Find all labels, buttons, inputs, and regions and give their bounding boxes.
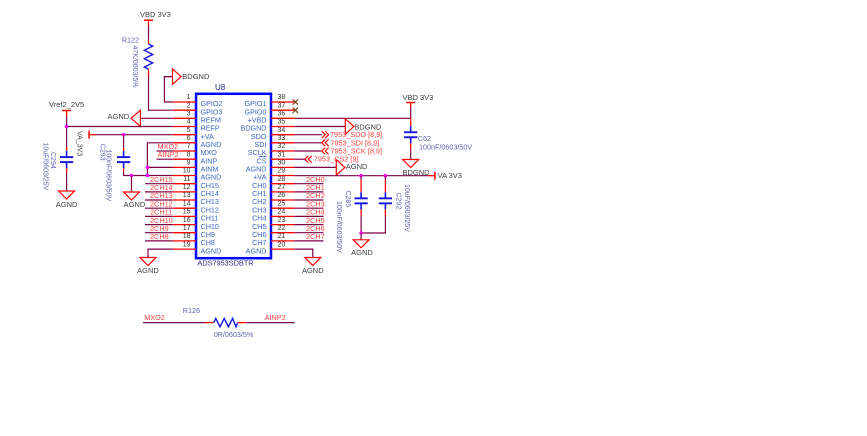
- svg-text:37: 37: [278, 102, 286, 109]
- svg-text:VA_3V3: VA_3V3: [75, 131, 82, 156]
- wire net 2CH10 (pin 16): [145, 224, 173, 226]
- wire BDGND to U8 pin 1 GPIO2: [164, 77, 172, 102]
- wire C292 bottom to ground junction: [361, 216, 385, 234]
- svg-text:5: 5: [187, 127, 191, 134]
- power VBD_3V3 (right): [406, 103, 415, 108]
- wire net 2CH14 (pin 12): [145, 191, 173, 193]
- capacitor C62: [404, 126, 417, 150]
- wire net AINP2 (pin 8): [157, 158, 173, 160]
- ground AGND (REFM): [131, 110, 140, 126]
- svg-text:AGND: AGND: [201, 246, 222, 255]
- svg-text:34: 34: [278, 127, 286, 134]
- svg-text:22: 22: [278, 225, 286, 232]
- ground AGND (C294): [59, 191, 75, 199]
- ground BDGND (GPIO2): [173, 69, 182, 84]
- svg-text:35: 35: [278, 119, 286, 126]
- wire Vref2 vertical: [66, 117, 68, 148]
- wire net 2CH11 (pin 15): [145, 215, 173, 217]
- wire net 2CH7 (pin 21): [295, 240, 324, 242]
- svg-text:18: 18: [183, 233, 191, 240]
- junction VA/C293: [122, 133, 126, 137]
- svg-text:23: 23: [278, 217, 286, 224]
- wire U8 pin 30 AGND: [295, 166, 337, 168]
- svg-text:2: 2: [187, 102, 191, 109]
- U8 left pin stubs 1-19: [173, 102, 196, 249]
- svg-text:AGND: AGND: [124, 200, 146, 209]
- svg-text:C285: C285: [344, 191, 351, 208]
- U8 right pin stubs 20-38: [271, 102, 295, 249]
- svg-text:1: 1: [187, 94, 191, 101]
- capacitor C293: [117, 148, 130, 172]
- wire net 2CH15 (pin 11): [145, 183, 173, 185]
- svg-text:33: 33: [278, 135, 286, 142]
- wire net 7953_SDO (pin 34): [295, 134, 322, 136]
- svg-text:28: 28: [278, 176, 286, 183]
- svg-text:36: 36: [278, 111, 286, 118]
- wire net 7953_CS2 (pin 31): [295, 158, 305, 160]
- wire +VA rail (pin 29): [295, 175, 428, 177]
- power VA_3V3 tap (right): [428, 172, 435, 180]
- junction pin9/ground: [146, 166, 150, 170]
- svg-text:29: 29: [278, 168, 286, 175]
- off-page connector 7953_SDO: [322, 131, 329, 138]
- svg-text:AGND: AGND: [137, 266, 159, 275]
- resistor R126: [205, 318, 246, 326]
- wire rail down to C292: [384, 176, 386, 193]
- svg-text:AINP2: AINP2: [158, 150, 179, 159]
- svg-text:6: 6: [187, 135, 191, 142]
- svg-text:24: 24: [278, 209, 286, 216]
- op-amp/IC U8 body ADS7953SDBTR: [196, 94, 271, 258]
- off-page connector 7953_SDI: [322, 139, 329, 146]
- wire C294 to AGND: [66, 173, 68, 192]
- ground AGND (C285/C292): [353, 240, 369, 248]
- svg-text:10: 10: [183, 168, 191, 175]
- wire AGND to U8 pin 3 REFM: [140, 117, 172, 119]
- power VBD_3V3 (top): [144, 20, 153, 26]
- svg-text:47K/0603/5%: 47K/0603/5%: [131, 46, 138, 88]
- svg-text:C293: C293: [98, 144, 105, 161]
- svg-text:BDGND: BDGND: [182, 72, 210, 81]
- wire net 2CH2 (pin 26): [295, 199, 324, 201]
- svg-text:26: 26: [278, 192, 286, 199]
- ground AGND (C293): [124, 192, 140, 200]
- junction C285/C292 ground: [359, 231, 363, 235]
- wire net MXO2 (R126 left): [143, 322, 205, 324]
- svg-text:ADS7953SDBTR: ADS7953SDBTR: [198, 259, 254, 268]
- capacitor C294: [60, 147, 73, 173]
- svg-text:AGND: AGND: [302, 266, 324, 275]
- svg-text:AINP2: AINP2: [265, 313, 286, 322]
- svg-text:20: 20: [278, 241, 286, 248]
- svg-text:16: 16: [183, 217, 191, 224]
- junction pin10/ground: [146, 174, 150, 178]
- U8 right pin numbers 20-38: [278, 94, 286, 248]
- svg-text:C294: C294: [49, 152, 56, 169]
- svg-text:31: 31: [278, 151, 286, 158]
- ground BDGND (pin 35): [345, 119, 354, 134]
- wire U8 pin 20 AGND: [295, 249, 313, 257]
- wire net 7953_SCK (pin 32): [295, 150, 322, 152]
- wire net MXO2 (pin 7): [157, 150, 173, 152]
- capacitor C292: [379, 192, 392, 215]
- svg-text:12: 12: [183, 184, 191, 191]
- wire +VBD rail (pin 36): [295, 107, 411, 118]
- svg-text:2CH8: 2CH8: [150, 232, 169, 241]
- svg-text:2CH7: 2CH7: [306, 232, 325, 241]
- wire net 2CH4 (pin 24): [295, 215, 324, 217]
- svg-text:9: 9: [187, 160, 191, 167]
- wire net 2CH1 (pin 27): [295, 191, 324, 193]
- U8 left pin names: [201, 99, 223, 255]
- off-page connector 7953_CS2: [305, 156, 312, 163]
- wire VA_3V3 to U8 pin 5 +VA: [96, 134, 173, 136]
- svg-text:10uF/0603/25V: 10uF/0603/25V: [403, 184, 410, 232]
- svg-text:VA 3V3: VA 3V3: [438, 171, 462, 180]
- svg-text:AGND: AGND: [108, 112, 130, 121]
- wire VA junction down to C293: [123, 135, 125, 148]
- svg-text:U8: U8: [215, 83, 226, 92]
- off-page connector 7953_SCK: [322, 148, 329, 155]
- svg-text:VBD 3V3: VBD 3V3: [403, 93, 434, 102]
- svg-text:21: 21: [278, 233, 286, 240]
- power VA_3V3 tap (left): [89, 131, 96, 139]
- svg-text:AGND: AGND: [56, 200, 78, 209]
- svg-text:27: 27: [278, 184, 286, 191]
- no-connect X pin 37 GPIO0: [293, 108, 298, 113]
- svg-text:10uF/0603/25V: 10uF/0603/25V: [42, 143, 49, 191]
- svg-text:Vref2_2V5: Vref2_2V5: [49, 100, 84, 109]
- ground AGND (pin 20): [305, 258, 321, 266]
- svg-text:30: 30: [278, 160, 286, 167]
- svg-text:R126: R126: [183, 306, 200, 315]
- svg-text:4: 4: [187, 119, 191, 126]
- svg-text:100nF/0603/50V: 100nF/0603/50V: [419, 143, 472, 152]
- U8 left pin numbers 1-19: [183, 94, 191, 248]
- svg-text:C292: C292: [395, 193, 402, 210]
- U8 right pin names: [241, 99, 267, 255]
- wire net AINP2 (R126 right): [246, 322, 295, 324]
- wire C62 to BDGND: [410, 150, 412, 160]
- wire U8 pin 10 AGND: [147, 175, 172, 177]
- junction Vref2/REFP: [65, 125, 69, 129]
- svg-text:AGND: AGND: [246, 246, 267, 255]
- wire net 2CH6 (pin 22): [295, 232, 324, 234]
- wire Vref2 to U8 pin 4 REFP: [67, 126, 173, 128]
- wire VBD to R122: [148, 27, 150, 40]
- ground AGND (pin 19): [140, 258, 156, 266]
- wire VBD rail down to C62: [410, 118, 412, 126]
- wire net 7953_SDI (pin 33): [295, 142, 322, 144]
- svg-text:38: 38: [278, 94, 286, 101]
- svg-text:VBD 3V3: VBD 3V3: [140, 10, 171, 19]
- svg-text:13: 13: [183, 192, 191, 199]
- svg-text:100nF/0603/50V: 100nF/0603/50V: [335, 201, 342, 253]
- wire U8 pin 35 BDGND: [295, 126, 346, 128]
- wire net 2CH13 (pin 13): [145, 199, 173, 201]
- svg-text:15: 15: [183, 209, 191, 216]
- svg-text:8: 8: [187, 151, 191, 158]
- resistor R122: [144, 40, 152, 75]
- svg-text:17: 17: [183, 225, 191, 232]
- svg-text:3: 3: [187, 111, 191, 118]
- svg-text:25: 25: [278, 200, 286, 207]
- svg-text:7: 7: [187, 143, 191, 150]
- svg-text:14: 14: [183, 200, 191, 207]
- svg-text:AGND: AGND: [346, 162, 368, 171]
- svg-text:MXO2: MXO2: [144, 313, 165, 322]
- ground BDGND (C62): [403, 160, 419, 168]
- wire net 2CH5 (pin 23): [295, 224, 324, 226]
- svg-text:32: 32: [278, 143, 286, 150]
- ground AGND (pin 30): [336, 160, 345, 175]
- wire U8 pin 19 AGND: [148, 249, 173, 257]
- wire C285 to ground junction: [360, 216, 362, 234]
- capacitor C285: [355, 192, 368, 215]
- svg-text:0R/0603/5%: 0R/0603/5%: [214, 330, 254, 339]
- no-connect X pin 38 GPIO1: [293, 99, 298, 104]
- junction rail/C292: [384, 174, 388, 178]
- wire U8 pin 9 AINM: [147, 166, 172, 168]
- power Vref2_2V5 tap: [62, 111, 71, 117]
- wire AGND drop: [131, 176, 133, 193]
- junction rail/C285: [359, 174, 363, 178]
- svg-text:R122: R122: [122, 35, 139, 44]
- svg-text:100nF/0603/50V: 100nF/0603/50V: [104, 150, 111, 202]
- wire U8 pin 6 AGND: [147, 143, 172, 176]
- svg-text:AGND: AGND: [351, 248, 373, 257]
- wire net 2CH12 (pin 14): [145, 207, 173, 209]
- wire net 2CH8 (pin 18): [145, 240, 173, 242]
- wire C293 bottom to ground rail: [124, 172, 148, 176]
- junction ground rail / AGND drop: [130, 174, 134, 178]
- wire net 2CH9 (pin 17): [145, 232, 173, 234]
- wire net 2CH3 (pin 25): [295, 207, 324, 209]
- wire R122 to U8 pin 2 GPIO3: [149, 75, 173, 110]
- wire net 2CH0 (pin 28): [295, 183, 324, 185]
- svg-text:19: 19: [183, 241, 191, 248]
- svg-text:11: 11: [183, 176, 190, 183]
- wire ground junction to AGND: [360, 233, 362, 240]
- wire rail down to C285: [360, 176, 362, 193]
